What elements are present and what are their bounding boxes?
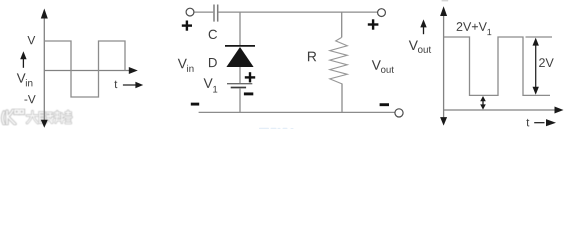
wire diode to battery (239, 67, 241, 83)
plus sign top-right (368, 19, 379, 29)
wire top-left (194, 11, 213, 13)
wire top-main (218, 11, 377, 13)
label Vin circuit (178, 59, 187, 68)
minus sign bottom-left (191, 103, 199, 106)
wire battery to bottom (239, 88, 241, 112)
wire bottom (199, 111, 395, 113)
wire resistor to bottom (341, 84, 343, 113)
Vout axis label arrow (420, 19, 426, 34)
label t (114, 81, 117, 89)
V1 offset dimension arrow (480, 96, 486, 110)
Vin plot x-axis (44, 67, 138, 74)
label C (209, 30, 217, 39)
t arrow right (534, 119, 556, 126)
output terminal top-right (378, 9, 386, 17)
capacitor C (214, 5, 218, 22)
minus sign battery (244, 92, 253, 95)
minus sign bottom-right (380, 103, 389, 106)
diode D triangle (226, 47, 253, 67)
label Vin (17, 73, 26, 82)
input terminal top-left (186, 8, 194, 16)
label R (308, 52, 316, 62)
label -V (24, 95, 35, 103)
label 2V (539, 58, 554, 67)
cut-off fragment top edge (442, 0, 449, 1)
battery V1 short plate (231, 87, 246, 89)
label V (27, 36, 35, 44)
faint caption smudge (259, 128, 294, 129)
plus sign top-left (182, 21, 192, 31)
label t right (526, 119, 529, 127)
watermark logo and text (3, 110, 72, 124)
label Vout axis (409, 40, 418, 50)
plus sign battery (245, 72, 255, 82)
label D (209, 58, 217, 67)
battery V1 long plate (227, 83, 252, 85)
diode D cathode bar (225, 45, 255, 47)
t arrow (123, 82, 143, 89)
label 2V+V1 (457, 22, 487, 31)
Vout plot y-axis (440, 6, 447, 125)
resistor R zigzag (330, 37, 348, 84)
wire diode branch top (239, 12, 241, 45)
Vin axis label arrow (20, 51, 26, 68)
Vout plot x-axis (444, 107, 564, 114)
label V1 (204, 78, 213, 87)
output terminal bottom-right (395, 109, 403, 117)
wire resistor branch top (341, 12, 343, 37)
Vin square waveform (44, 41, 125, 97)
top level reference tick (526, 36, 553, 38)
Vin plot y-axis (41, 9, 48, 128)
label Vout circuit (372, 60, 381, 69)
Vout square waveform (444, 37, 550, 95)
2V dimension arrow (533, 38, 539, 95)
